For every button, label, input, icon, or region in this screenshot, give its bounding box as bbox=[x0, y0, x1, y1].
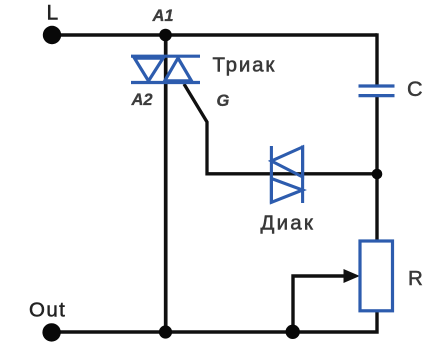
label R bbox=[408, 267, 423, 290]
wire: junction node to resistor top bbox=[375, 174, 378, 242]
svg-text:G: G bbox=[217, 92, 230, 110]
diac bbox=[271, 146, 302, 204]
wire: resistor bottom to bottom rail bbox=[52, 311, 377, 333]
label A1 bbox=[152, 7, 174, 25]
label L bbox=[47, 2, 59, 25]
wire: diac to junction node bbox=[271, 172, 377, 175]
label C bbox=[407, 77, 423, 101]
node A1 junction bbox=[159, 29, 172, 42]
wiper arrowhead bbox=[344, 269, 360, 283]
terminal Out bbox=[42, 323, 60, 341]
node junction wiper/bottom rail bbox=[286, 325, 300, 339]
capacitor C bbox=[359, 86, 395, 96]
label Триак bbox=[213, 54, 277, 77]
svg-text:A1: A1 bbox=[152, 7, 174, 25]
svg-text:R: R bbox=[408, 267, 423, 290]
label Out bbox=[29, 299, 66, 322]
terminal L bbox=[43, 26, 61, 44]
svg-text:Диак: Диак bbox=[261, 212, 316, 235]
svg-text:Out: Out bbox=[29, 299, 66, 322]
wire top: L to top-right corner bbox=[52, 33, 377, 36]
wire right side: corner down to capacitor top plate bbox=[375, 33, 378, 84]
node junction triac/bottom rail bbox=[159, 325, 172, 338]
svg-text:C: C bbox=[407, 77, 423, 101]
svg-text:A2: A2 bbox=[131, 91, 153, 109]
wire: capacitor bottom plate down to junction node bbox=[375, 97, 378, 174]
wire: gate G to diac bbox=[184, 84, 271, 174]
label G bbox=[217, 92, 230, 110]
wire: wiper branch to bottom rail bbox=[293, 276, 346, 332]
svg-text:Триак: Триак bbox=[213, 54, 277, 77]
resistor R (potentiometer body) bbox=[360, 241, 393, 311]
label Диак bbox=[261, 212, 316, 235]
node junction capacitor/diac/resistor bbox=[372, 169, 383, 180]
triac U1 bbox=[131, 56, 200, 82]
label A2 bbox=[131, 91, 153, 109]
svg-text:L: L bbox=[47, 2, 59, 25]
wire: triac branch vertical (A2 to bottom rail) bbox=[164, 35, 168, 332]
